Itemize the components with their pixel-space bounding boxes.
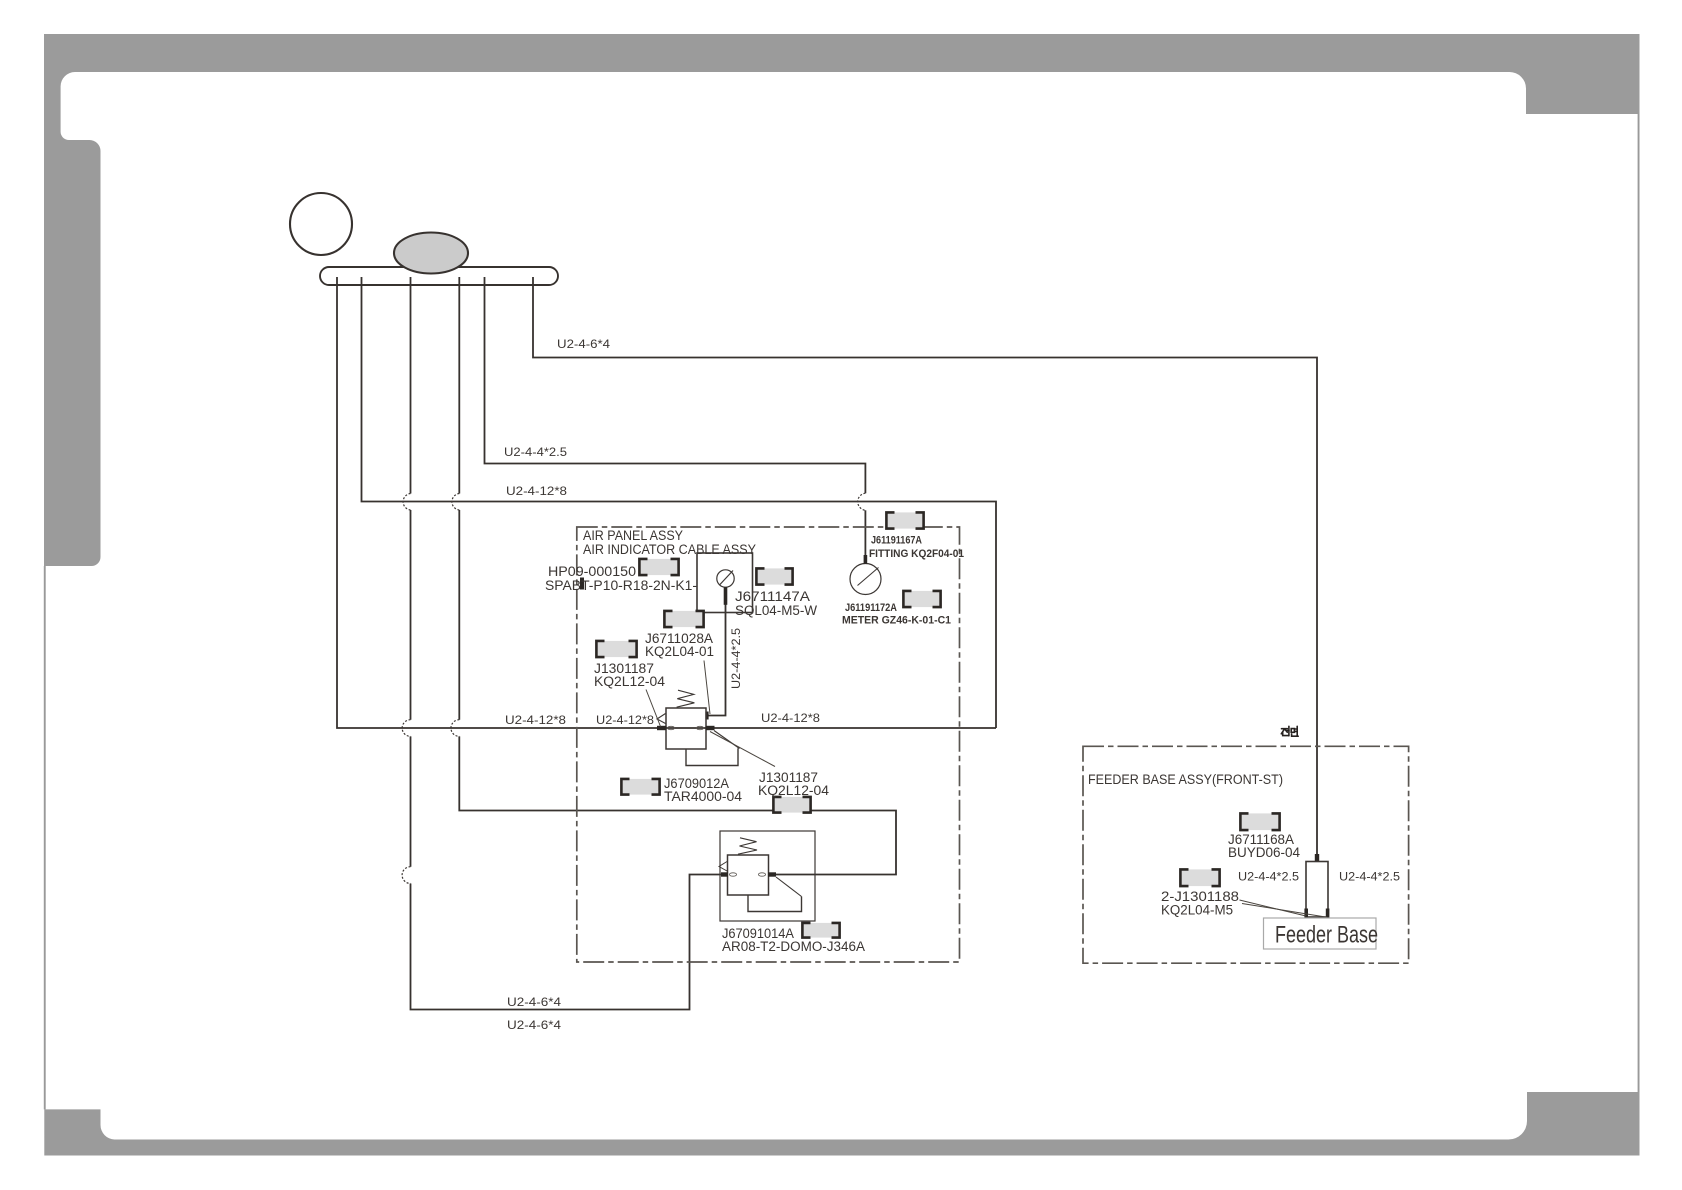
svg-text:J61191167A: J61191167A [871,535,922,547]
svg-text:KQ2L04-01: KQ2L04-01 [645,644,714,659]
svg-text:KQ2L04-M5: KQ2L04-M5 [1161,903,1233,918]
svg-text:U2-4-6*4: U2-4-6*4 [507,1018,561,1032]
svg-text:U2-4-4*2.5: U2-4-4*2.5 [729,628,743,689]
svg-text:U2-4-12*8: U2-4-12*8 [596,713,654,727]
svg-text:J6711147A: J6711147A [735,589,810,604]
svg-text:KQ2L12-04: KQ2L12-04 [758,783,830,798]
svg-text:AIR PANEL ASSY: AIR PANEL ASSY [583,528,683,543]
svg-text:Feeder Base: Feeder Base [1275,922,1378,949]
svg-text:AIR INDICATOR CABLE ASSY: AIR INDICATOR CABLE ASSY [583,542,756,557]
svg-text:J61191172A: J61191172A [845,602,897,614]
svg-text:U2-4-12*8: U2-4-12*8 [505,713,566,727]
svg-text:KQ2L12-04: KQ2L12-04 [594,674,666,689]
svg-text:TAR4000-04: TAR4000-04 [664,789,743,804]
svg-text:U2-4-6*4: U2-4-6*4 [507,995,561,1009]
svg-text:U2-4-4*2.5: U2-4-4*2.5 [1238,870,1299,884]
svg-text:FEEDER BASE ASSY(FRONT-ST): FEEDER BASE ASSY(FRONT-ST) [1088,772,1283,787]
svg-text:U2-4-4*2.5: U2-4-4*2.5 [504,445,567,459]
svg-text:AR08-T2-DOMO-J346A: AR08-T2-DOMO-J346A [722,939,865,954]
svg-text:SQL04-M5-W: SQL04-M5-W [735,603,817,618]
svg-text:SPABT-P10-R18-2N-K1-: SPABT-P10-R18-2N-K1- [545,578,697,593]
svg-text:U2-4-12*8: U2-4-12*8 [506,484,567,498]
svg-text:U2-4-6*4: U2-4-6*4 [557,337,610,351]
svg-text:HP09-000150: HP09-000150 [548,564,636,579]
svg-text:BUYD06-04: BUYD06-04 [1228,845,1301,860]
svg-text:U2-4-4*2.5: U2-4-4*2.5 [1339,870,1400,884]
svg-text:METER GZ46-K-01-C1: METER GZ46-K-01-C1 [842,615,951,627]
svg-text:FITTING KQ2F04-01: FITTING KQ2F04-01 [869,548,964,560]
svg-text:U2-4-12*8: U2-4-12*8 [761,711,820,725]
